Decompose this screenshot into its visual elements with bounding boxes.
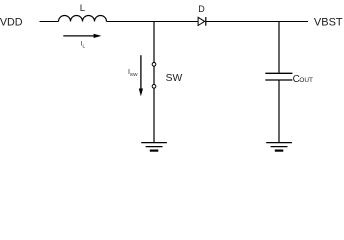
svg-text:D: D (198, 4, 205, 14)
svg-text:VBST: VBST (314, 17, 343, 29)
svg-text:L: L (80, 3, 86, 14)
svg-text:OUT: OUT (299, 77, 313, 84)
svg-text:L: L (83, 44, 86, 49)
svg-text:SW: SW (166, 73, 183, 84)
svg-text:VDD: VDD (0, 17, 23, 29)
svg-text:SW: SW (130, 72, 138, 78)
